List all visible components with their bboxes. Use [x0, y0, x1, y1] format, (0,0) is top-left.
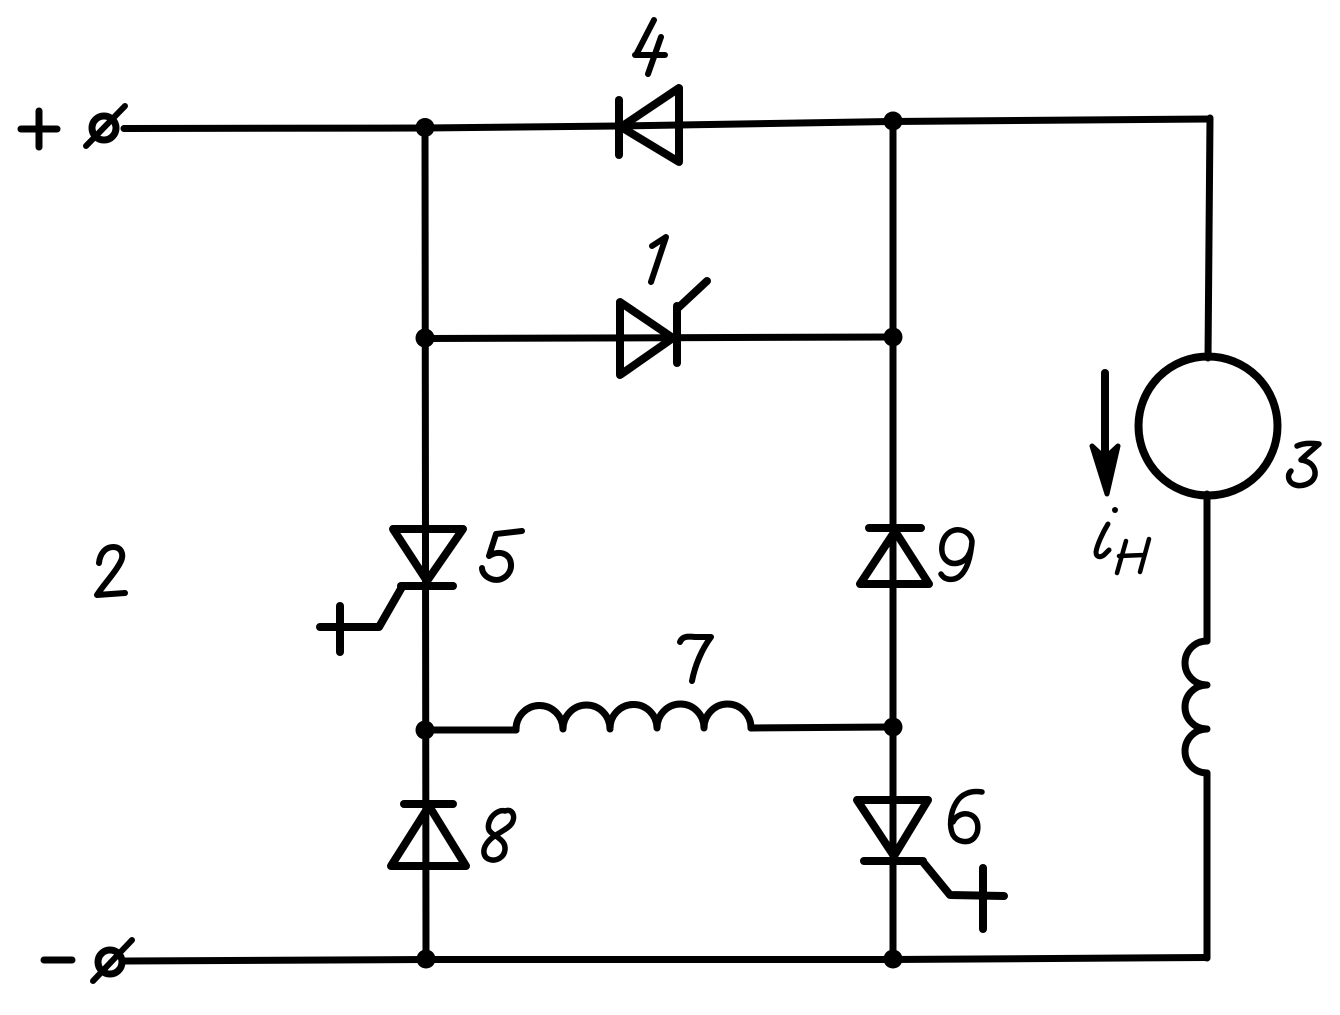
thyristor 6: [857, 800, 1004, 929]
terminal T1 (+ input): [86, 106, 125, 146]
wire right vertical lower: [1204, 773, 1211, 958]
node E (mid left junction): [416, 721, 435, 740]
inductor 7: [516, 704, 751, 730]
motor M 3: [1139, 357, 1278, 496]
label 5: [482, 531, 522, 580]
terminal T2 (- input): [93, 940, 132, 981]
node G (bottom left junction): [417, 950, 436, 969]
node B (top right junction): [884, 112, 903, 131]
wire right bus vertical: [890, 122, 897, 960]
label 7: [680, 637, 711, 681]
node H (bottom right junction): [884, 950, 903, 969]
label 3: [1289, 443, 1319, 485]
node C (row2 left junction): [416, 329, 435, 348]
wire right vertical middle: [1204, 494, 1211, 641]
label iH load current: [1096, 507, 1149, 573]
wire bottom horizontal: [124, 958, 1207, 962]
node F (mid right junction): [884, 718, 903, 737]
terminal plus sign: [21, 111, 57, 147]
wire row of thyristor 1: [425, 337, 893, 339]
label 8: [484, 810, 514, 860]
diode 8: [391, 804, 466, 866]
wire inductor row left: [425, 727, 516, 734]
thyristor 5: [320, 529, 463, 652]
wire top horizontal: [124, 119, 1210, 129]
wire right vertical upper: [1208, 118, 1210, 358]
label 9: [941, 530, 972, 580]
wire inductor row right: [751, 727, 893, 728]
arrow load current: [1092, 373, 1118, 494]
node D (row2 right junction): [884, 328, 903, 347]
label 1: [651, 237, 666, 282]
node A (top left junction): [416, 118, 435, 137]
wire left bus vertical: [425, 128, 426, 960]
inductor L right (smoothing choke): [1185, 641, 1207, 773]
label 4: [635, 20, 665, 74]
diode 9: [860, 528, 929, 584]
label 2: [97, 547, 125, 595]
label 6: [951, 791, 982, 841]
diode 4: [619, 88, 679, 162]
terminal minus sign: [44, 957, 72, 964]
thyristor 1: [620, 281, 707, 375]
